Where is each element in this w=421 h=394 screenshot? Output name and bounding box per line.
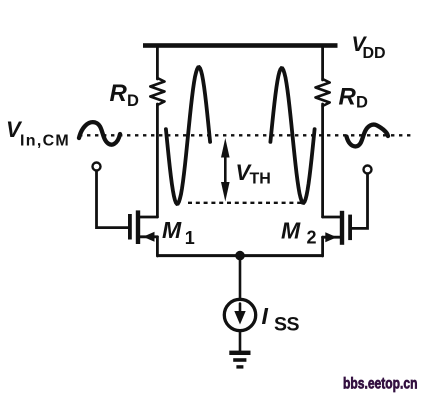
svg-text:R: R bbox=[110, 80, 128, 107]
svg-text:SS: SS bbox=[274, 314, 300, 336]
svg-text:2: 2 bbox=[307, 228, 317, 248]
svg-text:M: M bbox=[162, 217, 182, 243]
svg-text:bbs.eetop.cn: bbs.eetop.cn bbox=[343, 375, 418, 392]
svg-text:I: I bbox=[262, 303, 269, 329]
svg-text:R: R bbox=[339, 84, 357, 111]
svg-text:M: M bbox=[281, 218, 301, 244]
svg-text:In,CM: In,CM bbox=[20, 133, 70, 150]
svg-text:DD: DD bbox=[363, 45, 386, 62]
svg-text:D: D bbox=[356, 94, 368, 112]
svg-text:D: D bbox=[127, 92, 139, 110]
svg-text:TH: TH bbox=[250, 171, 271, 188]
svg-text:1: 1 bbox=[185, 228, 195, 248]
